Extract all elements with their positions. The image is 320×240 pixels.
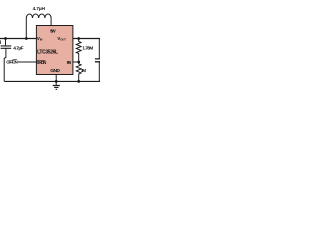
ground symbol — [53, 86, 60, 90]
wire SHDN lead — [18, 61, 37, 63]
wire GND lead — [55, 75, 57, 86]
svg-text:GND: GND — [50, 68, 60, 74]
node junction dot VOUT/R1 — [77, 37, 80, 40]
background — [0, 0, 100, 100]
capacitor CIN plates — [1, 46, 12, 48]
wire FB lead — [73, 61, 79, 63]
svg-text:SW: SW — [50, 29, 56, 35]
svg-text:1.78M: 1.78M — [82, 46, 93, 51]
wire bottom ground rail — [4, 80, 100, 82]
svg-text:OFF/ON: OFF/ON — [6, 60, 18, 65]
wire VOUT rail — [73, 38, 100, 40]
SHDN overline — [36, 59, 45, 61]
resistor R2 1M — [76, 62, 81, 81]
capacitor CIN top lead — [5, 39, 7, 46]
capacitor CIN bottom lead — [4, 48, 6, 81]
node junction dot cap/rail — [4, 37, 7, 40]
capacitor COUT top lead — [98, 39, 100, 59]
overline on ON — [13, 58, 18, 60]
op IC U1 LTC3526L body — [36, 26, 73, 75]
svg-text:SHDN: SHDN — [36, 60, 46, 65]
svg-text:LTC3526L: LTC3526L — [37, 49, 58, 55]
capacitor COUT plates — [95, 59, 100, 62]
svg-text:4.7µF: 4.7µF — [13, 46, 23, 52]
svg-text:FB: FB — [67, 60, 71, 65]
wire inductor left lead — [25, 18, 27, 39]
capacitor COUT bottom lead — [98, 62, 100, 82]
node junction dot inductor/rail — [25, 37, 28, 40]
svg-text:4.7µH: 4.7µH — [33, 6, 46, 12]
node junction dot R2/rail — [77, 80, 80, 83]
cropped fragment at left edge — [0, 40, 2, 44]
node junction dot FB — [77, 61, 80, 64]
svg-text:1M: 1M — [81, 68, 87, 73]
wire SW lead — [50, 18, 52, 26]
wire VIN rail — [0, 38, 36, 40]
resistor R1 1.78M — [76, 39, 81, 63]
node junction dot GND/rail — [55, 80, 58, 83]
inductor L1 4.7uH — [26, 14, 51, 18]
